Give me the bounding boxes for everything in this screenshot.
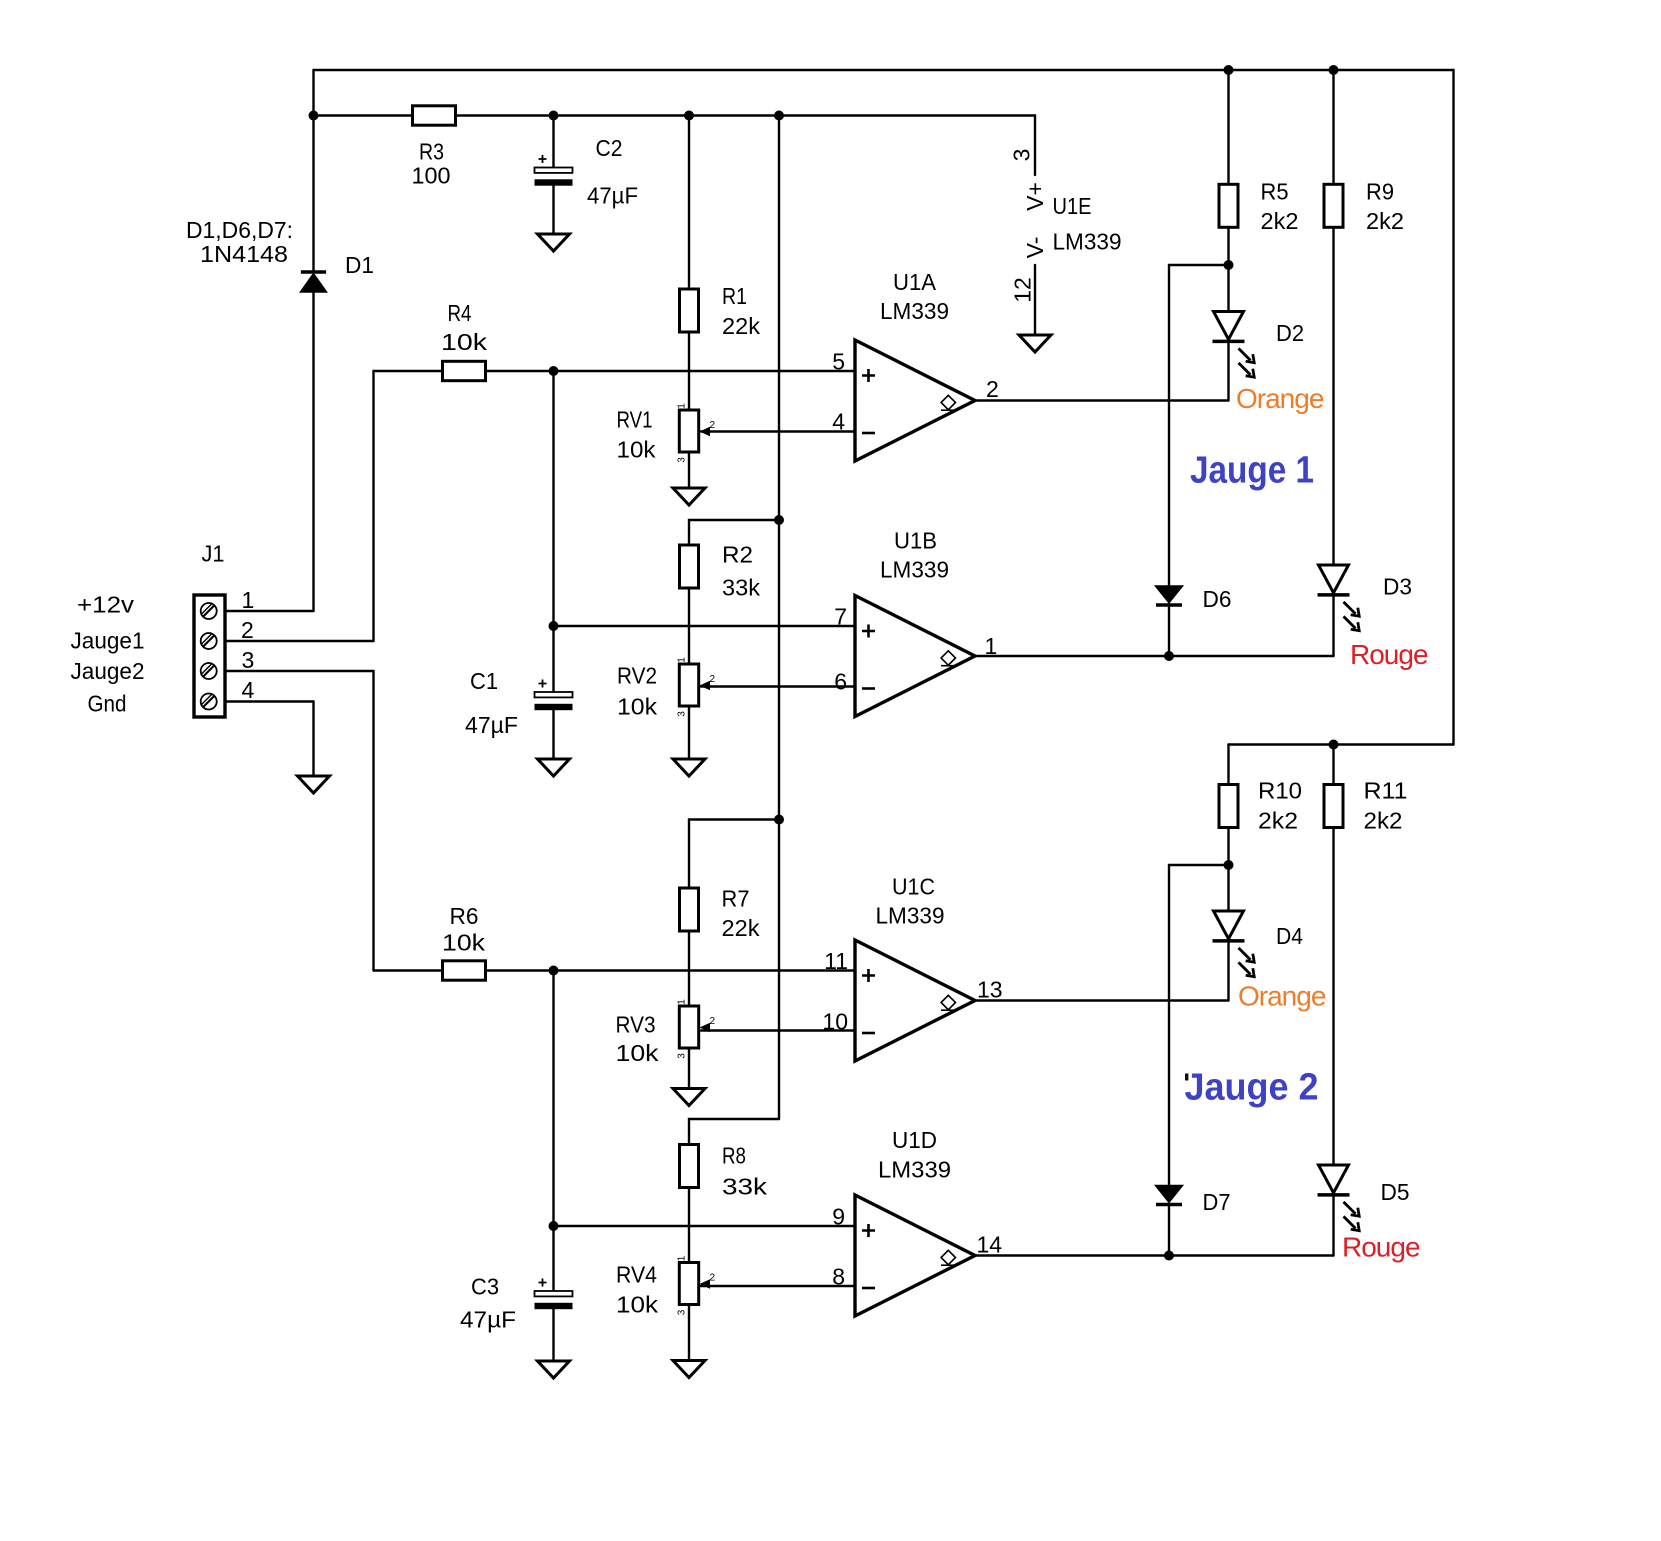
svg-text:LM339: LM339 [1053,229,1122,255]
svg-text:R6: R6 [450,903,479,929]
potentiometer RV1 [679,410,710,452]
wire R7 top corner [689,820,779,889]
wire J1 pin4 [225,700,314,702]
resistor R10 [1219,785,1238,828]
svg-text:R7: R7 [722,886,750,912]
svg-text:1: 1 [242,587,255,613]
wire right-side +12V drop for gauge 2 [1452,70,1454,745]
capacitor C2 [535,155,573,186]
resistor R2 [680,545,699,588]
svg-text:U1E: U1E [1053,193,1092,219]
svg-text:13: 13 [977,977,1003,1003]
ground RV1 [673,488,705,505]
svg-text:9: 9 [832,1204,845,1230]
svg-text:2: 2 [986,376,999,402]
wire C3 bottom lead to ground [552,1308,554,1361]
wire J1 pin2 [225,640,374,642]
wire R8 top corner [689,1119,779,1145]
wire R7 to RV3 [688,932,690,1007]
wire D4 bottom lead [1227,941,1229,1001]
wire U1D output to D7 D5 [975,1254,1334,1256]
svg-text:U1D: U1D [892,1127,937,1153]
wire C1 top lead [552,626,554,692]
wire R1 top lead [688,116,690,290]
wire R5 bottom lead [1227,227,1229,265]
wire U1C output to D4 [975,999,1229,1001]
svg-text:22k: 22k [722,915,761,941]
svg-text:10k: 10k [617,437,657,463]
junction D6 / U1B output [1164,651,1174,661]
junction C1 / U1B + input [549,621,559,631]
junction R6 / signal node 2 [549,966,559,976]
junction C2 / VCC bus [549,111,559,121]
svg-text:2: 2 [241,617,254,643]
svg-text:3: 3 [677,711,688,717]
svg-text:4: 4 [832,409,845,435]
svg-text:D1: D1 [345,252,374,278]
svg-text:2: 2 [710,1016,716,1027]
svg-text:D7: D7 [1203,1189,1231,1215]
wire U1B output to D6 D3 [975,655,1334,657]
svg-text:Jauge 2: Jauge 2 [1185,1067,1319,1109]
wire U1B + input row [554,625,856,627]
svg-text:V-: V- [1022,237,1048,259]
wire R11 to D5 [1332,827,1334,1165]
svg-text:1: 1 [677,1255,688,1261]
resistor R3 [413,106,456,125]
svg-text:3: 3 [242,647,255,673]
svg-text:R5: R5 [1261,179,1289,205]
svg-text:Jauge2: Jauge2 [71,658,145,684]
wire RV1 to ground [688,452,690,488]
wire C3 top lead [552,1226,554,1291]
resistor R1 [680,289,699,332]
svg-text:14: 14 [977,1232,1003,1258]
potentiometer RV3 [679,1006,710,1048]
wire R4 row to U1A + input [374,370,856,372]
resistor R8 [680,1145,699,1188]
svg-text:47µF: 47µF [465,712,518,738]
LED D3 red gauge 1 [1318,565,1360,631]
junction D1 branch / VCC bus [309,111,319,121]
svg-text:1: 1 [985,633,998,659]
svg-text:R11: R11 [1364,778,1408,804]
svg-text:D1,D6,D7:: D1,D6,D7: [186,217,293,243]
wire RV4 to ground [688,1305,690,1361]
wire U1E V+ pin stub [1034,116,1036,176]
junction R10 / D4 / D7 [1224,860,1234,870]
svg-text:47µF: 47µF [460,1307,516,1333]
op-amp U1C comparator [855,940,975,1061]
wire U1D + input row [554,1225,856,1227]
wire top +12V bus [314,69,1454,71]
svg-text:+12v: +12v [77,592,135,618]
svg-text:D3: D3 [1383,574,1412,600]
svg-text:R8: R8 [722,1143,746,1169]
wire RV2 wiper to U1B - input [701,685,855,687]
op-amp U1B comparator [855,596,975,717]
svg-text:R1: R1 [722,283,747,309]
svg-text:1: 1 [677,999,688,1005]
wire RV3 wiper to U1C - input [701,1029,855,1031]
svg-text:2: 2 [710,1273,716,1284]
svg-text:R9: R9 [1366,179,1394,205]
svg-text:2: 2 [710,420,716,431]
wire R2 to RV2 [688,588,690,665]
svg-text:10k: 10k [441,329,488,355]
svg-text:D5: D5 [1381,1179,1410,1205]
wire D3 bottom lead [1332,596,1334,656]
svg-text:8: 8 [832,1264,845,1290]
svg-text:RV2: RV2 [617,663,657,689]
svg-text:Rouge: Rouge [1350,639,1428,670]
wire R8 to RV4 [688,1188,690,1263]
ground RV2 [673,759,705,776]
resistor R9 [1324,184,1343,227]
wire U1A output to D2 [975,399,1229,401]
wire J1 pin3 [225,670,374,672]
svg-text:47µF: 47µF [587,183,638,209]
stray mark before Jauge 2 [1185,1074,1188,1081]
resistor R4 [443,361,486,380]
wire R1 to RV1 [688,332,690,411]
wire R5 top lead [1227,70,1229,184]
wire J1 pin4 to ground [312,702,314,777]
wire D2 top lead [1227,265,1229,312]
svg-text:Orange: Orange [1238,981,1326,1012]
svg-text:5: 5 [832,349,845,375]
svg-text:D6: D6 [1203,586,1232,612]
svg-text:3: 3 [677,1309,688,1315]
wire D5 bottom lead [1332,1196,1334,1256]
LED D5 red gauge 2 [1318,1165,1360,1231]
wire R10 junction to D7 anode [1169,865,1229,1186]
svg-text:C3: C3 [471,1274,499,1300]
capacitor C1 [535,680,573,711]
svg-text:2: 2 [710,674,716,685]
svg-text:LM339: LM339 [880,557,949,583]
wire D7 cathode to U1D output row [1168,1205,1170,1256]
svg-text:U1B: U1B [894,528,937,554]
svg-text:R10: R10 [1258,778,1302,804]
capacitor C3 [535,1279,573,1310]
junction R5 / D2 / D6 [1224,260,1234,270]
junction R11 / gauge-2 supply row [1329,740,1339,750]
svg-text:7: 7 [834,604,847,630]
diode D6 [1156,586,1183,605]
wire gauge-2 supply row [1229,743,1454,745]
svg-text:6: 6 [834,669,847,695]
resistor R7 [680,888,699,931]
svg-text:33k: 33k [722,1174,768,1200]
ground RV3 [673,1089,705,1106]
svg-text:R3: R3 [419,139,444,165]
wire R10 top lead [1227,745,1229,785]
wire signal node 1 vertical [552,371,554,626]
svg-text:10k: 10k [442,930,486,956]
svg-text:Orange: Orange [1236,383,1324,414]
junction R4 / signal node 1 [549,366,559,376]
svg-text:R2: R2 [722,542,753,568]
svg-text:D4: D4 [1276,923,1303,949]
diode D7 [1156,1186,1183,1205]
svg-text:LM339: LM339 [880,298,949,324]
svg-text:4: 4 [242,677,255,703]
svg-text:10k: 10k [616,1040,660,1066]
svg-text:R4: R4 [448,300,472,326]
wire J1 pin2 riser to R4 [372,371,374,641]
svg-text:10k: 10k [617,694,658,720]
connector J1 [194,595,225,717]
LED D4 orange gauge 2 [1213,911,1255,977]
potentiometer RV2 [679,664,710,706]
wire D4 top lead [1227,865,1229,911]
svg-text:LM339: LM339 [876,903,945,929]
svg-text:1N4148: 1N4148 [200,241,288,267]
wire RV3 to ground [688,1048,690,1089]
svg-text:2k2: 2k2 [1364,808,1403,834]
svg-text:U1C: U1C [892,874,935,900]
svg-text:Jauge1: Jauge1 [71,628,145,654]
junction R5 / top bus [1224,65,1234,75]
wire C2 bottom lead to ground [552,185,554,234]
svg-text:2k2: 2k2 [1258,808,1298,834]
LED D2 orange gauge 1 [1213,312,1255,378]
wire J1 pin3 drop to R6 [372,671,374,971]
wire R6 row to U1C + input [374,969,856,971]
svg-text:Rouge: Rouge [1342,1232,1420,1263]
svg-text:3: 3 [677,457,688,463]
svg-text:C1: C1 [470,668,498,694]
ground RV4 [673,1361,705,1378]
svg-text:22k: 22k [722,313,761,339]
ground C1 [538,759,570,776]
wire VCC bus after R3 [314,114,1036,116]
op-amp U1A comparator [855,340,975,461]
wire R9 to D3 [1332,227,1334,565]
wire U1E V- pin stub to ground [1034,265,1036,335]
svg-text:3: 3 [677,1053,688,1059]
ground J1 pin4 [298,776,330,793]
junction R9 / top bus [1329,65,1339,75]
op-amp U1D comparator [855,1195,975,1316]
svg-text:U1A: U1A [893,269,937,295]
wire D1 branch vertical (J1 pin1 to top bus) [312,70,314,611]
wire R11 top lead [1332,745,1334,785]
svg-text:11: 11 [824,948,848,974]
svg-text:10k: 10k [616,1292,659,1318]
junction C3 / U1D + input [549,1221,559,1231]
ground C2 [538,234,570,251]
svg-text:RV3: RV3 [616,1012,656,1038]
svg-text:2k2: 2k2 [1366,208,1404,234]
wire signal node 2 vertical [552,971,554,1227]
svg-text:RV1: RV1 [617,407,653,433]
svg-text:RV4: RV4 [616,1262,657,1288]
junction R2 / VCC rail [774,515,784,525]
svg-text:Gnd: Gnd [88,691,127,717]
wire RV4 wiper to U1D - input [701,1285,855,1287]
resistor R6 [443,961,486,980]
wire J1 pin1 [225,610,314,612]
svg-text:J1: J1 [202,541,225,567]
resistor R11 [1324,785,1343,828]
junction R1 / VCC bus [684,111,694,121]
junction R7 / VCC rail [774,815,784,825]
wire D6 cathode to U1B output row [1168,605,1170,656]
wire R9 top lead [1332,70,1334,184]
wire RV2 to ground [688,706,690,759]
diode D1 (1N4148) [301,272,327,292]
svg-text:1: 1 [677,657,688,663]
wire D2 bottom lead [1227,341,1229,400]
resistor R5 [1219,184,1238,227]
svg-text:10: 10 [822,1009,848,1035]
svg-text:2k2: 2k2 [1261,208,1299,234]
wire vertical VCC rail to R2 R7 R8 [778,116,780,1120]
svg-text:V+: V+ [1022,182,1048,211]
potentiometer RV4 [679,1263,710,1305]
junction D7 / U1D output [1164,1251,1174,1261]
junction VCC rail / VCC bus [774,111,784,121]
ground C3 [538,1361,570,1378]
ground U1E V- [1019,335,1051,352]
wire R10 bottom lead [1227,827,1229,865]
svg-text:Jauge 1: Jauge 1 [1190,450,1314,492]
svg-text:C2: C2 [596,135,623,161]
svg-text:33k: 33k [722,575,761,601]
wire C2 top lead [552,116,554,168]
svg-text:1: 1 [677,403,688,409]
svg-text:LM339: LM339 [878,1157,951,1183]
wire R2 top corner [689,520,779,545]
svg-text:12: 12 [1010,277,1036,303]
wire R5 junction to D6 anode [1169,265,1229,586]
svg-text:3: 3 [1009,149,1035,162]
svg-text:100: 100 [412,163,451,189]
wire C1 bottom lead to ground [552,709,554,759]
svg-text:D2: D2 [1276,320,1304,346]
wire RV1 wiper to U1A - input [701,430,855,432]
